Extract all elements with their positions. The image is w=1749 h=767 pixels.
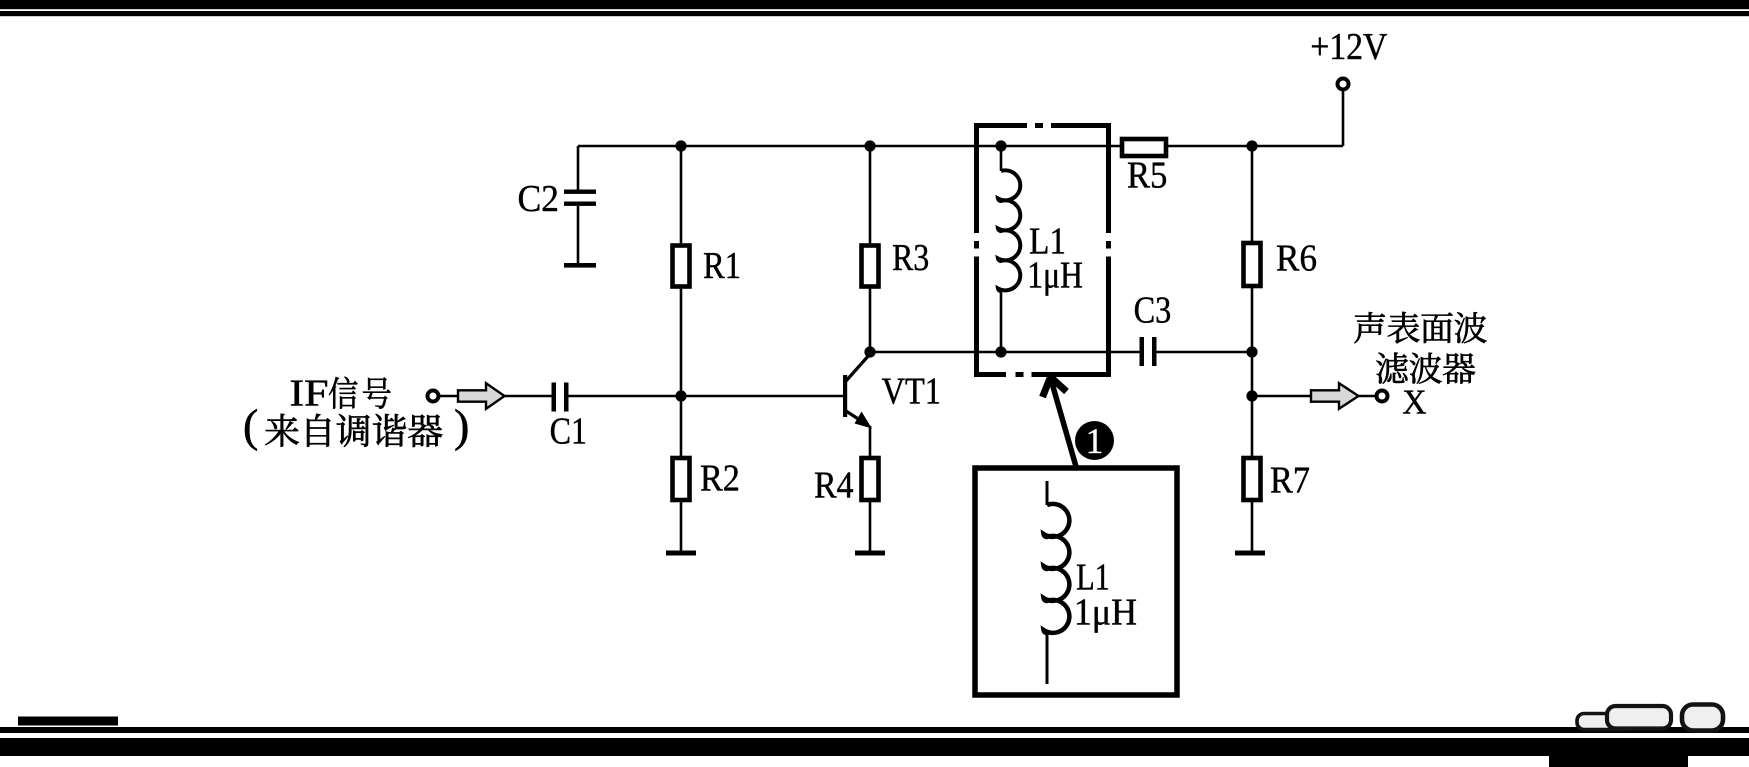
- wire R6 bottom lead: [1251, 286, 1254, 458]
- wire output node to arrow: [1252, 395, 1311, 398]
- ground under R2: [666, 551, 696, 556]
- wire +12V drop: [1342, 90, 1345, 146]
- label C1: [551, 418, 585, 444]
- transistor VT1: [843, 354, 872, 429]
- node junctions: [675, 140, 1257, 401]
- label IF signal: [291, 377, 391, 409]
- wire R2 top lead: [680, 396, 683, 458]
- inductor L1 detail: [1044, 481, 1070, 684]
- wire collector to C3: [870, 351, 1140, 354]
- resistor R5: [1122, 139, 1166, 156]
- label 1uH: [1030, 262, 1082, 295]
- label R2: [701, 465, 738, 490]
- wire R1 bottom lead: [680, 286, 683, 396]
- label 1uH detail: [1077, 599, 1136, 632]
- resistor R3: [862, 246, 879, 287]
- wire R1 top lead: [680, 146, 683, 246]
- label VT1: [882, 378, 939, 404]
- label +12V: [1312, 34, 1387, 60]
- label L1 detail: [1077, 564, 1108, 589]
- label L1: [1030, 228, 1064, 253]
- resistor R7: [1244, 458, 1261, 500]
- ground under R7: [1235, 551, 1265, 556]
- label C2: [519, 186, 557, 212]
- wire R4 bottom lead: [869, 500, 872, 551]
- wire arrow to X terminal: [1359, 395, 1376, 398]
- label R7: [1271, 468, 1309, 493]
- output block arrow: [1311, 383, 1359, 409]
- capacitor C3: [1140, 337, 1157, 366]
- wire C1 to base: [569, 395, 844, 398]
- label R6: [1277, 245, 1316, 271]
- label R4: [815, 472, 853, 497]
- wire R6 top lead: [1251, 146, 1254, 243]
- label X: [1403, 391, 1426, 414]
- circled number 1: [1075, 421, 1114, 460]
- wire R3 top lead: [869, 146, 872, 245]
- label from tuner: [245, 409, 467, 451]
- label R5: [1128, 163, 1166, 188]
- label SAW: [1354, 312, 1486, 344]
- resistor R6: [1244, 243, 1261, 286]
- wire emitter lead: [869, 426, 872, 458]
- callout detail box: [975, 468, 1177, 695]
- label R3: [893, 245, 928, 271]
- inductor L1: [998, 146, 1020, 352]
- resistor R2: [673, 458, 690, 500]
- resistor R1: [673, 246, 690, 287]
- node input terminal: [428, 391, 439, 402]
- wire C3 to R6 column: [1157, 351, 1253, 354]
- callout arrow: [1043, 377, 1078, 470]
- capacitor C1: [552, 383, 569, 412]
- capacitor C2: [564, 146, 596, 268]
- wire arrow to C1: [505, 395, 552, 398]
- wire input terminal to arrow: [440, 395, 458, 398]
- node +12V terminal: [1338, 79, 1349, 90]
- label C3: [1135, 297, 1170, 323]
- input signal block arrow: [458, 383, 505, 409]
- resistor R4: [862, 458, 879, 500]
- wire R2 bottom lead: [680, 500, 683, 551]
- ground under R4: [855, 551, 885, 556]
- dashed selection box around L1: [974, 123, 1111, 377]
- wire top supply rail: [578, 145, 1343, 148]
- wire R3 bottom lead: [869, 286, 872, 352]
- label R1: [704, 253, 739, 278]
- node output terminal X: [1377, 391, 1388, 402]
- label filter: [1376, 353, 1475, 384]
- wire R7 bottom lead: [1251, 500, 1254, 551]
